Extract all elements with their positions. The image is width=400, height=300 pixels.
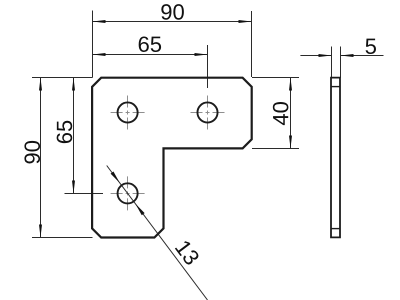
plate outline (L-shaped bracket, front view) xyxy=(92,78,252,238)
hole B centerlines xyxy=(191,96,225,130)
hole C centerlines xyxy=(111,176,145,210)
arrowheads dimension 5 xyxy=(319,54,332,57)
dimension line 90 top xyxy=(93,21,252,23)
hole A centerlines xyxy=(111,96,145,130)
arrowheads dimension 65 left xyxy=(72,78,75,91)
label 90 top xyxy=(161,4,184,20)
leader arrow upper xyxy=(111,172,120,183)
dimension line 65 top xyxy=(93,54,208,56)
extension lines thickness dim xyxy=(331,47,333,78)
dimension line 5 thickness xyxy=(300,55,331,57)
arrowheads dimension 90 left xyxy=(39,78,42,91)
extension line bottom horizontal (right 40 dim) xyxy=(252,148,299,150)
extension line hole C horizontal (left 65 dim) xyxy=(65,193,104,195)
extension line right vertical (top 90 dim) xyxy=(251,11,253,77)
side view chamfer line bottom xyxy=(331,228,340,230)
hole A (top left) xyxy=(118,102,138,122)
extension line top horizontal (right 40 dim) xyxy=(252,77,299,79)
hole B (top right) xyxy=(197,102,217,122)
label 13 diameter xyxy=(175,239,201,266)
dimension line 90 left xyxy=(40,78,42,238)
hole C (bottom) xyxy=(118,183,138,203)
dimension line 65 left xyxy=(73,78,75,194)
leader arrow lower xyxy=(135,204,144,215)
label 90 left xyxy=(24,141,40,164)
arrowheads dimension 65 top xyxy=(93,53,106,56)
dimension line 40 right xyxy=(290,78,292,149)
leader line diameter 13 xyxy=(107,166,208,300)
extension line top horizontal (left dims) xyxy=(32,77,93,79)
label 5 thickness xyxy=(366,39,376,54)
label 65 top xyxy=(139,36,161,52)
label 40 right xyxy=(273,102,289,125)
extension line bottom horizontal (left 90 dim) xyxy=(32,237,93,239)
extension line hole B vertical (top 65 dim) xyxy=(207,45,209,88)
side view plate (thickness view) xyxy=(331,78,340,238)
label 65 left xyxy=(57,121,73,143)
arrowheads dimension 90 top xyxy=(93,20,106,23)
extension line left vertical (top dims) xyxy=(92,11,94,78)
side view chamfer line top xyxy=(331,86,340,88)
arrowheads dimension 40 right xyxy=(289,78,292,91)
